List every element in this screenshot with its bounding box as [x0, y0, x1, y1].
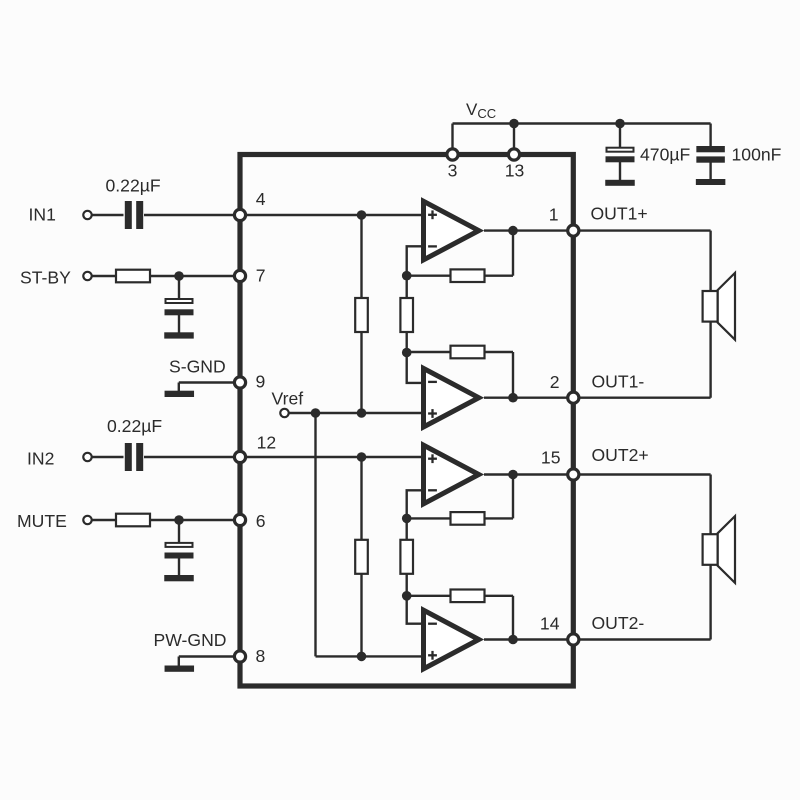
svg-text:IN1: IN1	[29, 205, 56, 225]
svg-text:100nF: 100nF	[732, 145, 782, 165]
svg-text:OUT2+: OUT2+	[592, 445, 649, 465]
svg-text:MUTE: MUTE	[17, 511, 67, 531]
svg-text:OUT1+: OUT1+	[591, 204, 648, 224]
svg-text:1: 1	[549, 205, 559, 225]
svg-text:15: 15	[541, 448, 561, 468]
svg-text:7: 7	[256, 266, 266, 286]
svg-text:470µF: 470µF	[640, 145, 690, 165]
svg-text:IN2: IN2	[27, 449, 54, 469]
svg-text:2: 2	[550, 372, 560, 392]
svg-text:ST-BY: ST-BY	[20, 268, 71, 288]
svg-text:14: 14	[540, 614, 560, 634]
svg-text:PW-GND: PW-GND	[154, 630, 227, 650]
svg-text:8: 8	[256, 646, 266, 666]
svg-text:OUT1-: OUT1-	[592, 372, 645, 392]
svg-text:12: 12	[257, 433, 277, 453]
svg-text:3: 3	[448, 161, 458, 181]
svg-text:OUT2-: OUT2-	[592, 613, 645, 633]
svg-text:S-GND: S-GND	[169, 357, 226, 377]
svg-text:6: 6	[256, 511, 266, 531]
svg-text:0.22µF: 0.22µF	[106, 176, 161, 196]
svg-text:13: 13	[505, 161, 525, 181]
svg-text:9: 9	[256, 371, 266, 391]
svg-text:4: 4	[256, 189, 266, 209]
svg-text:0.22µF: 0.22µF	[107, 416, 162, 436]
svg-text:Vref: Vref	[272, 389, 304, 409]
